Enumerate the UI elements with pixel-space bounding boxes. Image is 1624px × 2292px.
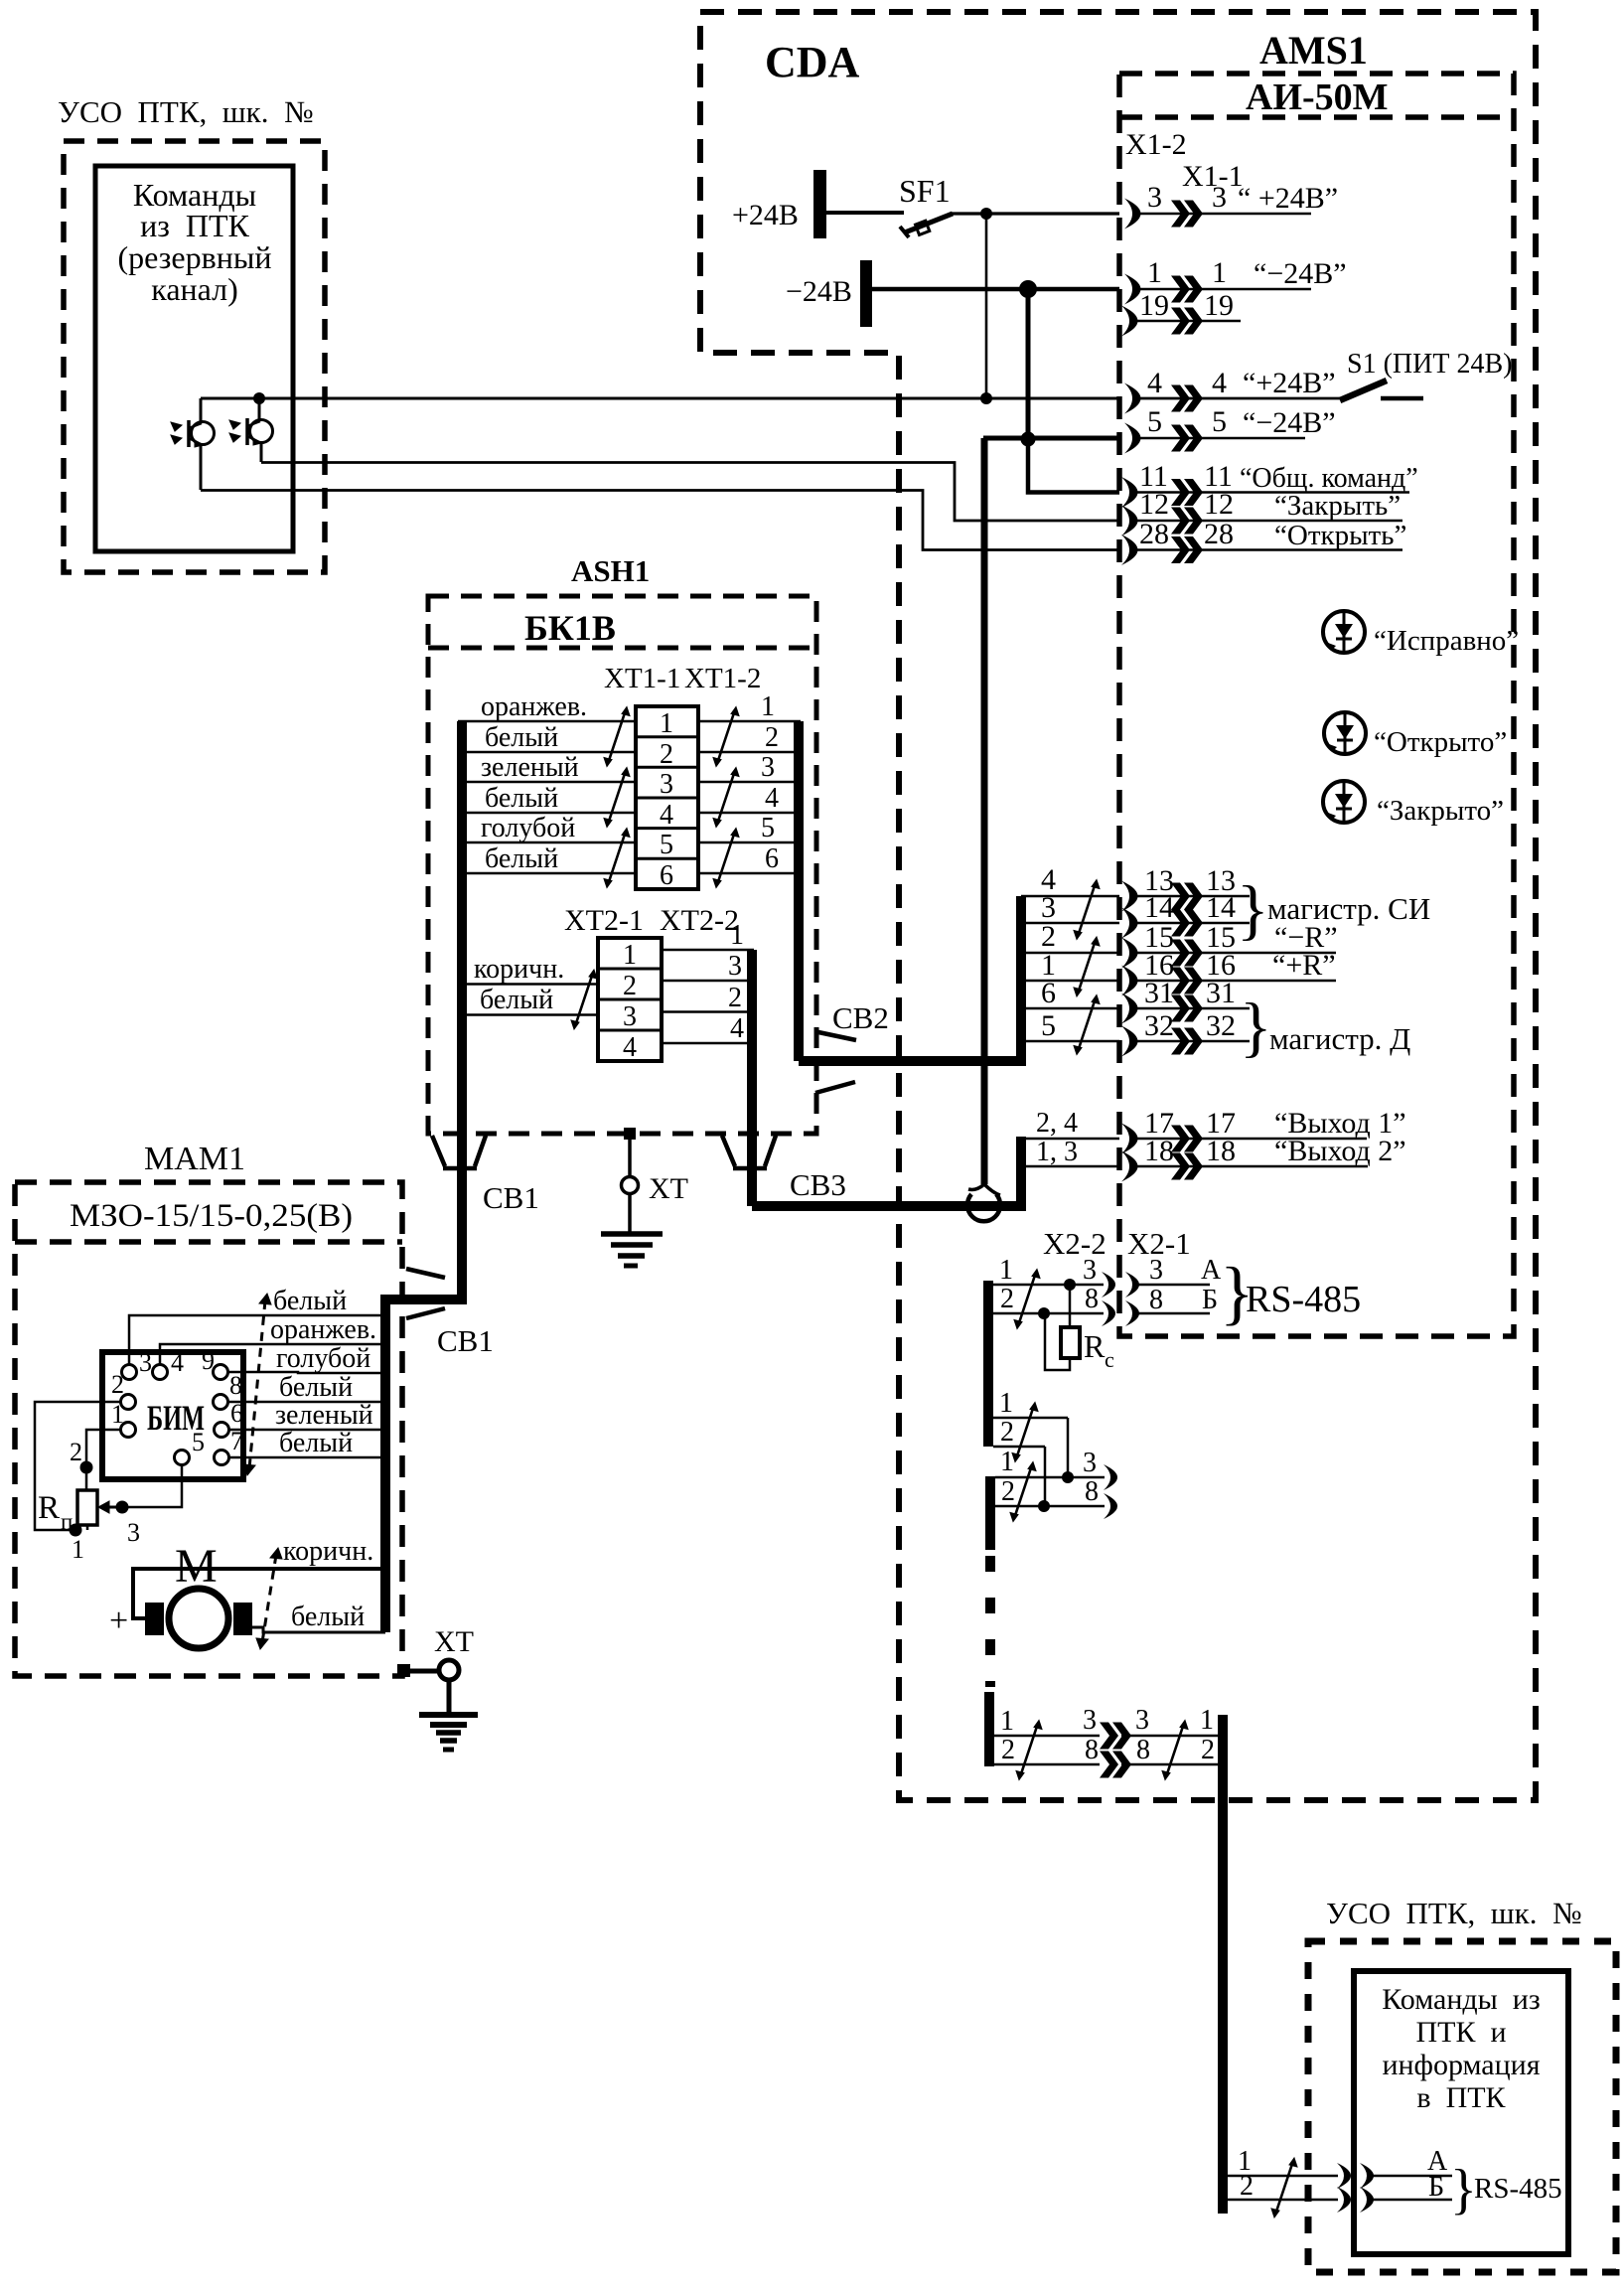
svg-text:“Открыто”: “Открыто” <box>1374 726 1507 758</box>
svg-text:6: 6 <box>765 843 779 874</box>
svg-text:3: 3 <box>1147 181 1162 214</box>
wire row 1,3/18 "Output 2" <box>1021 1135 1406 1182</box>
-24V supply bar <box>860 260 872 327</box>
svg-text:XT2-1: XT2-1 <box>564 904 644 937</box>
indicator lamp "Zakryto" <box>1323 781 1504 827</box>
pin 12 row "close" <box>1121 488 1403 536</box>
svg-text:белый: белый <box>291 1602 365 1632</box>
svg-text:белый: белый <box>279 1428 353 1458</box>
svg-text:белый: белый <box>480 985 553 1015</box>
node Rp:3 <box>116 1501 129 1514</box>
svg-text:зеленый: зеленый <box>481 752 579 783</box>
thick -24V cable drop to loop <box>981 438 988 1184</box>
wire Zakryt from VU2 to pin 12 <box>261 463 1119 522</box>
svg-text:3: 3 <box>1135 1705 1149 1736</box>
svg-text:голубой: голубой <box>276 1343 370 1374</box>
wire bundle row 6/31 <box>1021 977 1250 1024</box>
svg-text:2: 2 <box>660 739 673 770</box>
twisted mark interlink right <box>1162 1721 1188 1780</box>
svg-text:8: 8 <box>229 1371 242 1400</box>
svg-text:А: А <box>1201 1255 1222 1286</box>
svg-text:5: 5 <box>192 1428 205 1456</box>
svg-text:32: 32 <box>1144 1009 1174 1042</box>
svg-text:“Открыть”: “Открыть” <box>1274 520 1406 551</box>
svg-text:+: + <box>109 1603 128 1639</box>
+24V supply bar <box>813 170 826 238</box>
svg-text:3: 3 <box>139 1348 152 1377</box>
terminal block XT1 <box>636 706 698 889</box>
svg-text:2: 2 <box>70 1438 82 1466</box>
svg-text:14: 14 <box>1144 891 1174 924</box>
wire X2-2 row 2 / RS-485 B <box>993 1284 1218 1326</box>
wire X2 mid row 1 <box>993 1388 1068 1477</box>
svg-text:(резервный: (резервный <box>118 239 272 275</box>
svg-text:19: 19 <box>1139 289 1169 322</box>
wire +24V to SF1 <box>826 211 904 215</box>
wire -24V to pin 11 <box>1028 439 1119 493</box>
svg-text:3: 3 <box>1149 1255 1163 1286</box>
svg-text:4: 4 <box>730 1013 744 1044</box>
wire bundle row 3/14 <box>1021 891 1250 939</box>
svg-text:2: 2 <box>1240 2171 1254 2202</box>
indicator lamp "Otkryto" <box>1324 712 1507 758</box>
USO PTK upper dashed box <box>64 141 325 572</box>
svg-text:оранжев.: оранжев. <box>481 691 587 722</box>
svg-text:информация: информация <box>1382 2049 1540 2081</box>
svg-text:ХТ: ХТ <box>649 1172 688 1205</box>
svg-text:5: 5 <box>660 830 673 860</box>
node Rp:1 <box>70 1524 82 1537</box>
cable bus right of XT1 down to CB2 <box>794 721 804 1061</box>
wire white BIM:8 <box>227 1401 385 1404</box>
svg-text:БК1В: БК1В <box>524 608 616 648</box>
svg-text:9: 9 <box>202 1346 215 1375</box>
svg-text:X2-2: X2-2 <box>1043 1226 1107 1261</box>
svg-text:белый: белый <box>485 783 558 814</box>
wires XT1-2 to right bus <box>698 721 801 873</box>
ground terminal XT of BK1V <box>601 1128 688 1266</box>
svg-text:3: 3 <box>1212 181 1227 214</box>
commands and info box <box>1354 1971 1568 2254</box>
pin 11 row "common command" <box>1121 460 1418 508</box>
svg-text:3: 3 <box>1083 1255 1097 1286</box>
svg-text:белый: белый <box>273 1286 347 1316</box>
svg-text:белый: белый <box>279 1372 353 1403</box>
svg-text:ХТ: ХТ <box>434 1625 474 1658</box>
cable CB2 run to magistral bundle <box>799 896 1021 1061</box>
svg-text:SF1: SF1 <box>899 173 951 209</box>
cable bus left of XT1 <box>457 721 467 1134</box>
wire pin 5 rail <box>983 436 1119 441</box>
svg-text:2: 2 <box>111 1370 124 1399</box>
svg-text:ПТК и: ПТК и <box>1415 2016 1506 2049</box>
optocoupler VU2 <box>229 398 273 462</box>
svg-text:28: 28 <box>1204 518 1234 550</box>
cable bus to lower USO <box>1218 1715 1228 2214</box>
svg-text:в ПТК: в ПТК <box>1416 2081 1506 2114</box>
svg-text:XT1-1: XT1-1 <box>604 663 680 694</box>
svg-text:коричн.: коричн. <box>283 1536 373 1567</box>
svg-text:УСО ПТК, шк. №: УСО ПТК, шк. № <box>1326 1896 1582 1930</box>
cable CB3 run to outputs <box>752 1137 1021 1206</box>
MAM1 dashed box <box>15 1182 402 1676</box>
wire SF1 to pin 3 <box>951 212 1119 215</box>
svg-text:5: 5 <box>761 813 775 843</box>
wire common +24V to pin 4 <box>201 397 1119 400</box>
svg-text:“+R”: “+R” <box>1272 949 1336 982</box>
svg-text:1: 1 <box>730 920 744 951</box>
svg-text:4: 4 <box>171 1348 184 1377</box>
svg-text:2: 2 <box>1001 1735 1015 1765</box>
BK1V dashed box <box>428 596 816 1134</box>
svg-text:1: 1 <box>623 940 637 971</box>
svg-text:3: 3 <box>127 1518 140 1547</box>
svg-text:8: 8 <box>1136 1735 1150 1765</box>
svg-text:4: 4 <box>660 800 673 831</box>
svg-text:“Исправно”: “Исправно” <box>1374 625 1519 657</box>
svg-text:3: 3 <box>761 752 775 783</box>
dashed cable continuation <box>985 1556 995 1687</box>
svg-text:Б: Б <box>1428 2172 1444 2203</box>
wire -24V drop <box>1026 289 1031 440</box>
svg-text:4: 4 <box>623 1032 637 1063</box>
svg-text:R: R <box>1084 1328 1106 1364</box>
node Rp:2 <box>80 1461 93 1474</box>
svg-text:18: 18 <box>1144 1135 1174 1167</box>
svg-text:1: 1 <box>1147 256 1162 289</box>
svg-text:1: 1 <box>1000 1706 1014 1737</box>
wire white to XT1:6 <box>458 872 636 875</box>
svg-text:“Выход 2”: “Выход 2” <box>1274 1135 1406 1167</box>
twisted mark interlink left <box>1016 1721 1042 1780</box>
wire interlink row 1/3-3/1 <box>994 1705 1218 1750</box>
svg-text:R: R <box>38 1490 60 1526</box>
twisted mark lower RS-485 <box>1271 2158 1297 2217</box>
svg-text:}: } <box>1450 2159 1477 2220</box>
wire white motor <box>252 1627 385 1632</box>
wire white to XT1:4 <box>458 812 636 815</box>
twisted mark X2-2 rows <box>1014 1270 1040 1329</box>
svg-text:CDA: CDA <box>765 38 860 86</box>
svg-text:31: 31 <box>1206 977 1236 1009</box>
svg-text:RS-485: RS-485 <box>1246 1279 1361 1320</box>
block BIM <box>102 1352 243 1479</box>
svg-text:}: } <box>1237 871 1269 947</box>
wire green BIM:6 <box>228 1429 385 1432</box>
CDA module dashed border <box>700 12 1536 1800</box>
svg-text:СВ3: СВ3 <box>790 1167 846 1202</box>
cable mark across BIM wires <box>243 1294 271 1475</box>
svg-text:2: 2 <box>1201 1735 1215 1765</box>
pin 3 row "+24V" <box>1124 181 1338 229</box>
svg-text:32: 32 <box>1206 1009 1236 1042</box>
svg-text:AMS1: AMS1 <box>1259 28 1368 73</box>
switch S1 (PIT 24V) <box>1340 349 1512 400</box>
twisted pair mark rows 31-32 <box>1074 995 1100 1055</box>
svg-text:8: 8 <box>1149 1285 1163 1315</box>
cable bus X2 upper segment <box>983 1281 993 1447</box>
svg-text:}: } <box>1240 989 1272 1064</box>
svg-text:S1 (ПИТ 24В): S1 (ПИТ 24В) <box>1347 349 1512 380</box>
svg-text:1: 1 <box>72 1535 84 1564</box>
wire X2-2 row 1 / RS-485 A <box>993 1255 1222 1298</box>
svg-text:1: 1 <box>761 691 775 722</box>
svg-text:19: 19 <box>1204 289 1234 322</box>
svg-text:2: 2 <box>1000 1417 1014 1448</box>
svg-text:“−24В”: “−24В” <box>1254 257 1347 290</box>
wire X2 spare row 3 <box>995 1447 1117 1490</box>
node junction on +24V rail <box>253 392 265 404</box>
potentiometer Rp circuit <box>35 1402 182 1530</box>
wire bundle row 5/32 <box>1021 1009 1250 1057</box>
wire white BIM:7 <box>228 1456 385 1459</box>
svg-text:3: 3 <box>623 1001 637 1032</box>
svg-text:5: 5 <box>1041 1009 1056 1042</box>
svg-text:“Закрыть”: “Закрыть” <box>1274 490 1401 522</box>
node SF1 output junction <box>980 208 992 220</box>
cable CB1 drop into MAM1 <box>385 1134 462 1632</box>
terminating resistor Rc <box>1045 1285 1080 1370</box>
optocoupler VU1 <box>171 398 215 490</box>
svg-text:XT2-2: XT2-2 <box>660 904 739 937</box>
pin 28 row "open" <box>1121 518 1406 565</box>
svg-text:канал): канал) <box>151 271 238 307</box>
cable bus X2 lower segment <box>985 1476 995 1550</box>
wire bundle row 2/15 "-R" <box>1021 920 1338 969</box>
svg-text:п: п <box>61 1509 73 1534</box>
svg-text:1: 1 <box>999 1255 1013 1286</box>
svg-text:4: 4 <box>1147 367 1162 399</box>
twisted mark X2 mid rows <box>1012 1403 1038 1462</box>
twisted marks XT1-1 side <box>604 707 630 767</box>
wire brown motor <box>133 1569 385 1618</box>
svg-text:12: 12 <box>1204 488 1234 521</box>
pin 19 row <box>1121 289 1241 337</box>
svg-text:1: 1 <box>1200 1705 1214 1736</box>
svg-text:XT1-2: XT1-2 <box>684 663 761 694</box>
svg-text:18: 18 <box>1206 1135 1236 1167</box>
terminal block XT2 <box>598 938 662 1061</box>
pin 4 row "+24V" <box>1124 367 1340 414</box>
wire RS-485 A to lower USO <box>1228 2146 1452 2189</box>
svg-text:2: 2 <box>623 971 637 1001</box>
svg-text:1: 1 <box>111 1400 124 1429</box>
svg-text:RS-485: RS-485 <box>1474 2173 1562 2205</box>
svg-text:6: 6 <box>230 1399 243 1428</box>
pin 5 row "-24V" <box>1124 405 1336 454</box>
svg-text:31: 31 <box>1144 977 1174 1009</box>
svg-text:1: 1 <box>1000 1447 1014 1477</box>
svg-text:4: 4 <box>765 783 779 814</box>
svg-text:5: 5 <box>1212 405 1227 438</box>
svg-text:2: 2 <box>1000 1284 1014 1314</box>
svg-text:Команды из: Команды из <box>1382 1983 1540 2016</box>
wire RS-485 B to lower USO <box>1228 2171 1452 2213</box>
svg-text:8: 8 <box>1085 1284 1099 1314</box>
svg-text:1: 1 <box>999 1388 1013 1419</box>
wire bundle row 1/16 "+R" <box>1021 949 1336 996</box>
connector CB1 funnel at MAM1 edge <box>406 1269 445 1318</box>
ground terminal XT of MAM1 <box>397 1625 478 1750</box>
wire orange BIM:4 <box>160 1344 385 1365</box>
svg-text:коричн.: коричн. <box>474 954 564 985</box>
svg-text:4: 4 <box>1212 367 1227 399</box>
svg-text:5: 5 <box>1147 405 1162 438</box>
svg-text:3: 3 <box>728 951 742 982</box>
cable bus lower-left segment <box>984 1692 994 1766</box>
wire green to XT1:3 <box>458 781 636 784</box>
cable mark across motor wires <box>256 1548 282 1649</box>
svg-text:“Закрыто”: “Закрыто” <box>1377 795 1504 827</box>
svg-text:ASH1: ASH1 <box>571 553 650 588</box>
wire row 2,4/17 "Output 1" <box>1021 1107 1406 1154</box>
svg-text:12: 12 <box>1139 488 1169 521</box>
svg-text:1: 1 <box>660 708 673 739</box>
wire blue to XT1:5 <box>458 841 636 844</box>
svg-text:7: 7 <box>230 1427 243 1455</box>
wire interlink row 2/8-8/2 <box>994 1735 1218 1778</box>
svg-text:СВ1: СВ1 <box>483 1180 539 1215</box>
wire +24V drop to pin4 rail <box>985 214 988 398</box>
svg-text:МАМ1: МАМ1 <box>144 1141 245 1177</box>
commands-from-PTK reserve channel box <box>95 166 293 551</box>
svg-text:“−24В”: “−24В” <box>1243 406 1336 439</box>
indicator lamp "Ispravno" <box>1323 611 1519 657</box>
svg-text:АИ-50М: АИ-50М <box>1246 76 1389 118</box>
node -24V junction <box>1019 280 1037 298</box>
svg-text:магистр. Д: магистр. Д <box>1269 1021 1410 1056</box>
connector CB2 at BK1V edge <box>815 1032 856 1093</box>
svg-text:1: 1 <box>1212 256 1227 289</box>
MAM1 title separator <box>15 1239 402 1245</box>
svg-text:“+24В”: “+24В” <box>1243 367 1336 399</box>
connector CB1 funnel at BK1V bottom <box>432 1136 486 1168</box>
wires XT2-2 to right bus <box>662 950 754 1043</box>
AMS1 unit dashed box <box>1119 74 1514 1336</box>
svg-text:14: 14 <box>1206 891 1236 924</box>
twisted pair mark rows 15-16 <box>1074 937 1100 996</box>
cable pass-through loop on CB3 <box>967 1184 1000 1221</box>
cable bus right of XT2 down to CB3 <box>747 950 757 1206</box>
svg-text:УСО ПТК, шк. №: УСО ПТК, шк. № <box>58 94 314 129</box>
wire white to XT2:3 <box>458 1013 598 1016</box>
BK1V title separator <box>428 646 816 651</box>
wire brown to XT2:2 <box>458 983 598 986</box>
svg-text:“ +24В”: “ +24В” <box>1238 182 1338 215</box>
svg-text:МЗО-15/15-0,25(В): МЗО-15/15-0,25(В) <box>70 1198 353 1234</box>
svg-text:зеленый: зеленый <box>275 1400 373 1431</box>
node junction +24V drop <box>980 392 992 404</box>
svg-text:X1-2: X1-2 <box>1125 128 1187 161</box>
USO PTK lower dashed box <box>1308 1941 1616 2272</box>
svg-text:2: 2 <box>728 983 742 1013</box>
svg-text:8: 8 <box>1085 1735 1099 1765</box>
wire orange to XT1:1 <box>458 720 636 723</box>
svg-text:6: 6 <box>660 860 673 891</box>
connector CB3 funnel at BK1V bottom <box>722 1136 776 1168</box>
twisted mark XT2-1 side <box>571 970 597 1029</box>
svg-text:2: 2 <box>1001 1476 1015 1507</box>
svg-text:СВ2: СВ2 <box>832 1000 889 1035</box>
wire -24V to pin 1 <box>872 287 1119 292</box>
AMS1 title separator <box>1119 114 1514 120</box>
svg-text:Б: Б <box>1202 1285 1218 1315</box>
svg-text:2, 4: 2, 4 <box>1036 1108 1078 1139</box>
svg-text:28: 28 <box>1139 518 1169 550</box>
wire X2 spare row 8 <box>995 1476 1117 1519</box>
twisted pair mark rows 13-14 <box>1074 880 1100 940</box>
wire Otkryt from VU1 to pin 28 <box>201 491 1119 550</box>
wire bundle row 4/13 <box>1021 863 1250 912</box>
svg-text:оранжев.: оранжев. <box>270 1314 376 1345</box>
twisted mark X2 spare rows <box>1010 1462 1036 1522</box>
svg-text:−24В: −24В <box>786 275 852 308</box>
svg-text:8: 8 <box>1085 1476 1099 1507</box>
svg-text:с: с <box>1105 1347 1114 1372</box>
node -24V / pin5 junction <box>1021 432 1036 447</box>
svg-text:из ПТК: из ПТК <box>140 208 249 243</box>
svg-text:1, 3: 1, 3 <box>1036 1137 1078 1167</box>
svg-text:+24В: +24В <box>732 199 799 231</box>
svg-text:3: 3 <box>1083 1705 1097 1736</box>
svg-text:белый: белый <box>485 843 558 874</box>
BIM pins <box>121 1365 229 1465</box>
twisted marks XT1-2 side <box>713 707 739 767</box>
pin 1 row "-24V" <box>1124 256 1347 305</box>
svg-text:голубой: голубой <box>481 813 575 843</box>
wire X2 mid row 2 <box>993 1417 1045 1506</box>
svg-text:6: 6 <box>1041 977 1056 1009</box>
svg-text:М: М <box>175 1540 218 1593</box>
wire white to XT1:2 <box>458 751 636 754</box>
wire blue BIM:9 <box>227 1372 385 1373</box>
svg-text:3: 3 <box>660 769 673 800</box>
svg-text:белый: белый <box>485 722 558 753</box>
svg-text:3: 3 <box>1083 1448 1097 1478</box>
wire white BIM:3 <box>129 1315 385 1365</box>
svg-text:2: 2 <box>765 722 779 753</box>
svg-text:СВ1: СВ1 <box>437 1323 494 1358</box>
